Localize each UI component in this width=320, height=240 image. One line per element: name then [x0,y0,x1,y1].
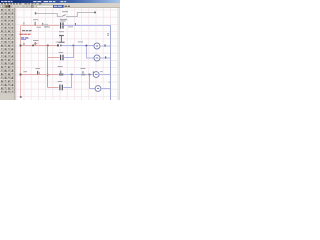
meter M2 (circle) [94,55,100,61]
meter M1 (circle) [94,43,100,49]
pin tick on M2 wire [105,56,106,58]
wire: M2 to right rail [100,57,111,59]
wire row B (red, y=45.5) [21,45,58,47]
node: top net left terminal [35,12,36,14]
wire row A (blue, to right rail) [64,25,111,27]
meter M4 (circle) [95,86,101,92]
wire: vertical x=72 up to row C [71,75,73,88]
toolbar icon: open [3,6,5,8]
wire row D (blue) to vertical x=72 [63,87,72,89]
legend text line 1 (dark) [22,30,25,31]
push-switch SW2 plunger cap [59,35,64,36]
label: above row B right [78,41,83,42]
component B1 pin tick [35,42,36,45]
label: top net value below [60,18,63,21]
canvas background [0,0,120,100]
red rail 2 (x=47.5) [47,46,49,88]
wire row A (red, y=25.5) [21,25,60,27]
battery pin near rail row B [23,43,24,45]
label: C3 above [80,68,85,69]
palette scattered icon marks [1,9,13,92]
switch SW3 on row C [37,71,38,75]
label: top net value above [62,11,68,12]
wire: M2 left lead [86,57,94,59]
wire row C (blue) [64,74,94,76]
toolbar icon: new [0,5,2,7]
resistor R1 pin tick [60,71,61,73]
label: C4 above [58,81,63,82]
battery cell B1 pin [23,22,24,25]
label: near rail row C [23,71,27,72]
component A1 pin tick [35,22,36,25]
switch SW2 terminals on row B [57,44,59,46]
toolbar edit box [37,5,54,8]
toolbar icon: dark [8,5,10,8]
label: C2 above [59,52,64,53]
wire: cap branch blue to x=73 [64,57,74,59]
tiny mark near rail bottom [109,82,110,83]
wire: to meter M4 [89,88,95,90]
toolbar icon: gray [11,5,13,7]
label: right of M3 [100,70,103,73]
wire row C (red, y=74.5) [21,74,59,76]
menu bar [0,3,120,5]
node: rail/row B junction [20,45,22,47]
push-switch SW2 bridge bar [58,42,64,43]
toolbar combo selected [53,5,64,8]
node: row B x=73 junction [73,45,75,47]
wire: M4 to right rail [101,88,111,90]
wire: vertical x=89 down from row C [89,75,91,89]
label: R1 above [58,66,63,67]
pin tick on M1 wire [104,44,105,46]
toolbar icons: faint group [14,6,16,8]
label: on right rail [107,32,109,35]
right window edge [118,8,120,100]
toolbar icon: coloured run button [5,5,6,7]
left power rail (red) [20,26,22,75]
legend text line 2 (red) [19,34,23,35]
node: rail/row C junction [20,74,22,76]
component C3 on row C [81,74,85,76]
label: below row A left [37,26,42,29]
left palette tray [0,8,15,100]
label: SW3 above [36,68,41,69]
wire: M3 to right rail [99,74,110,76]
push-switch SW2 stem [61,36,62,42]
wire: vertical x=86 down to meter M2 row [86,46,88,58]
toolbar [0,5,120,8]
label: value left of SW2 [56,41,59,44]
node: top net right end [94,12,96,14]
title bar [0,0,120,3]
legend text line 3 (blue) [21,37,24,38]
right power rail (blue) [110,26,112,101]
node: rail bottom end [20,96,22,98]
wire: cap branch red (y=57.5) [48,57,60,59]
canvas grid [17,8,118,100]
node: row C x=89 junction [89,74,91,76]
toolbar text after combo [65,6,68,7]
pin tick on row A blue wire [75,23,76,25]
capacitor C1 (row A) [60,22,61,28]
red label above row B [34,42,38,45]
capacitor C2 [60,55,61,61]
label: C1 above [60,19,67,20]
palette/canvas divider [14,8,17,100]
label: SW2 above [59,31,64,32]
label: A1 above [33,19,38,20]
node: rail2/cap row junction [47,74,49,76]
switch SW1 (open, on top net) [62,15,66,17]
node: row B at x=33 [32,45,34,47]
label: below row A right [68,25,73,28]
polarity mark on row A [42,23,43,25]
pin tick before meter M3 [93,71,94,73]
node: row B x=86 junction [86,45,88,47]
wire: vertical x=73 up to row B [73,46,75,58]
label: B1 above [33,40,39,41]
wire: top net left segment [36,14,61,17]
small box on row A [44,24,48,27]
wire row D (red, y=87.5) [48,87,59,89]
wire: top net right segment [66,13,95,17]
title text [1,1,4,2]
node: row B / red rail 2 junction [47,45,49,47]
resistor R1 on row C [59,73,64,75]
capacitor C4 [59,85,60,91]
node: row C x=72 junction [71,74,73,76]
label: below row A mid [44,26,50,29]
meter M3 (circle) [93,72,99,78]
wire row B (blue) [62,45,94,47]
wire: M1 to right rail [100,45,111,47]
